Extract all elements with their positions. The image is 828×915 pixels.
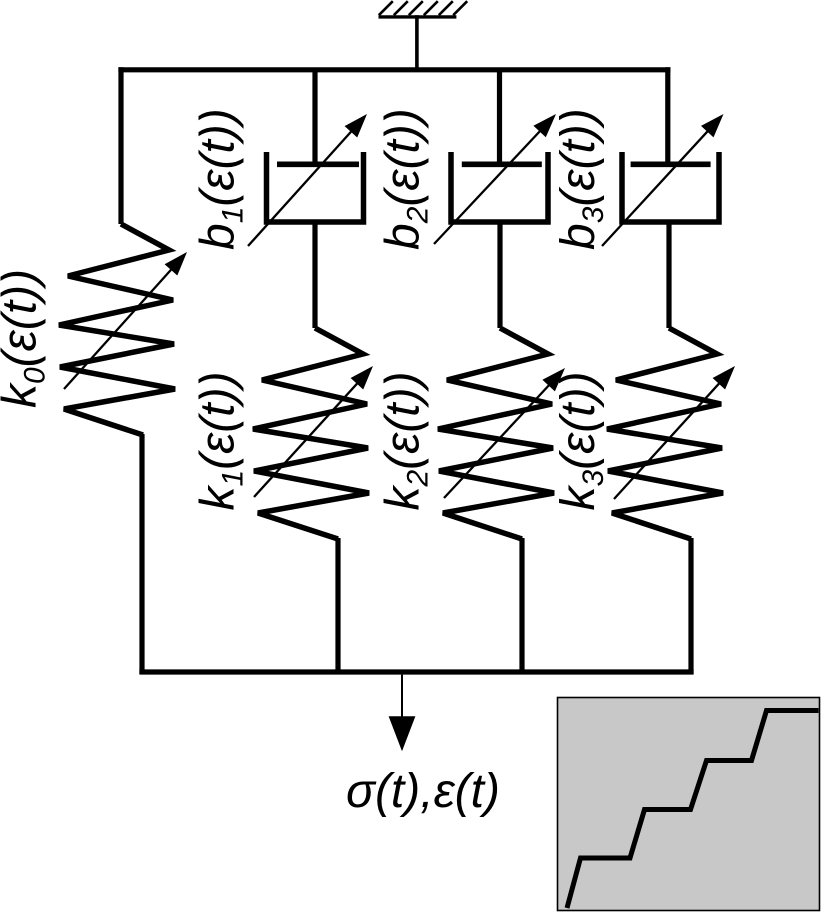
load arrow (sigma) xyxy=(401,675,403,718)
variable arrow of k1 xyxy=(254,381,360,497)
wire: branch 4 bottom connector xyxy=(688,538,693,674)
svg-text:k1(ε(t)): k1(ε(t)) xyxy=(192,371,250,510)
dashpot b3: cup xyxy=(622,152,719,222)
wire: branch 2 bottom connector xyxy=(335,538,340,674)
dashpot b1: piston plate xyxy=(277,162,359,168)
variable arrow of k3 xyxy=(614,381,722,499)
wire: branch 3 bottom connector xyxy=(519,538,524,674)
svg-text:k3(ε(t)): k3(ε(t)) xyxy=(552,371,610,510)
variable arrow of k2 xyxy=(444,383,551,498)
wire: b3 to k3 stem xyxy=(666,222,671,328)
wire: bottom bar xyxy=(139,669,693,674)
dashpot b2: cup xyxy=(451,152,548,222)
svg-text:k0(ε(t)): k0(ε(t)) xyxy=(0,269,52,408)
variable arrow of b2 xyxy=(434,129,542,244)
wire: branch 1 bottom connector xyxy=(139,434,144,674)
dashpot b2: piston plate xyxy=(462,162,542,168)
spring k1 xyxy=(253,328,369,539)
svg-text:b1(ε(t)): b1(ε(t)) xyxy=(192,108,250,250)
dashpot b1: top stem xyxy=(312,70,317,167)
inset: stress history plot box xyxy=(558,698,820,911)
wire: branch 4 top connector xyxy=(665,67,670,167)
dashpot b3: piston plate xyxy=(631,162,711,168)
wire: top bar xyxy=(118,67,670,72)
wire: branch 1 top connector xyxy=(118,67,123,224)
spring k0 xyxy=(59,224,175,435)
svg-text:b3(ε(t)): b3(ε(t)) xyxy=(552,108,610,250)
dashpot b1: cup xyxy=(267,152,364,222)
variable arrow of b3 xyxy=(602,129,710,246)
spring k2 xyxy=(438,328,554,539)
dashpot b2: top stem xyxy=(497,70,502,167)
svg-text:k2(ε(t)): k2(ε(t)) xyxy=(377,371,435,510)
variable arrow of b1 xyxy=(248,129,354,246)
wire: b2 to k2 stem xyxy=(497,222,502,328)
wire: b1 to k1 stem xyxy=(312,222,317,328)
ground (fixed support) xyxy=(379,1,468,72)
variable arrow of k0 xyxy=(64,267,174,389)
svg-text:σ(t),ε(t): σ(t),ε(t) xyxy=(346,765,500,818)
inset: staircase curve xyxy=(567,711,819,909)
spring k3 xyxy=(607,328,723,539)
svg-text:b2(ε(t)): b2(ε(t)) xyxy=(377,108,435,250)
